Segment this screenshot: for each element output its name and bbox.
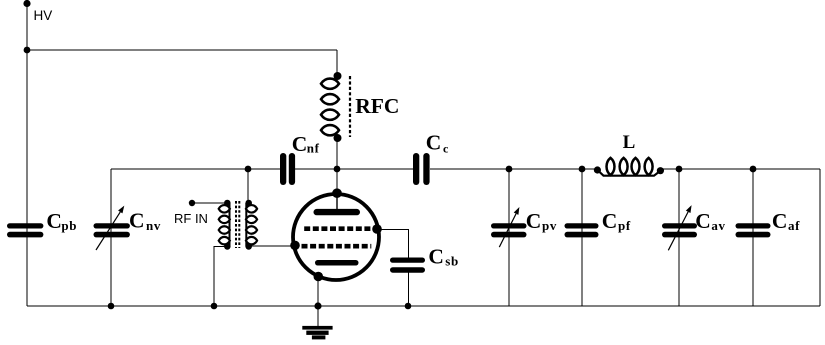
svg-text:C: C: [129, 209, 145, 233]
svg-text:C: C: [602, 209, 618, 233]
label Cnf: [292, 132, 320, 156]
wire RFC bottom to tube plate cap: [336, 138, 338, 193]
label Cc: [426, 131, 449, 156]
svg-text:sb: sb: [445, 253, 459, 268]
label Cpv: [526, 209, 557, 233]
junction Caf / output bus: [750, 166, 757, 173]
junction signal bus / tube plate riser: [334, 166, 341, 173]
svg-text:C: C: [426, 131, 442, 155]
wire primary to ground: [214, 246, 227, 306]
wire ground bus (bottom): [27, 305, 820, 307]
svg-text:RFC: RFC: [355, 94, 399, 118]
svg-text:pf: pf: [618, 218, 631, 233]
label HV: [34, 8, 53, 23]
svg-text:C: C: [46, 209, 62, 233]
wire RFC top drop: [336, 50, 338, 76]
label Cnv: [129, 209, 161, 233]
junction transformer primary / ground bus: [211, 303, 218, 310]
wire HV vertical rail: [26, 3, 28, 306]
wire secondary top riser: [247, 169, 249, 203]
tube plate (anode): [314, 193, 361, 215]
wire Caf branch: [752, 169, 754, 306]
ground symbol: [302, 326, 332, 340]
RFC top terminal dot: [334, 72, 342, 80]
wire signal bus right segment: [430, 168, 597, 170]
svg-text:nv: nv: [146, 218, 161, 233]
svg-text:C: C: [772, 209, 788, 233]
svg-text:C: C: [695, 209, 711, 233]
tube pin dots: [290, 188, 382, 281]
vacuum tube V1 envelope: [293, 194, 379, 280]
wire output bus after L: [660, 168, 820, 170]
capacitor Csb (plates): [390, 258, 425, 273]
svg-text:C: C: [292, 132, 308, 156]
Cav arrow: [668, 205, 691, 250]
capacitor Cnv variable (plates): [94, 223, 130, 237]
svg-text:pv: pv: [542, 218, 557, 233]
wire screen grid to Csb: [378, 230, 409, 259]
capacitor Cpf (plates): [565, 223, 599, 237]
junction Csb / ground bus: [405, 303, 412, 310]
L right terminal dot: [657, 167, 664, 174]
wire secondary to control grid: [249, 245, 295, 247]
L left terminal dot: [594, 166, 601, 173]
wire cathode to bus: [317, 277, 319, 307]
wire RF IN lead: [192, 202, 227, 204]
capacitor Cnf (plates): [280, 153, 295, 185]
junction Cpf / signal bus: [579, 166, 586, 173]
tube screen grid (dashed): [304, 226, 370, 231]
svg-text:c: c: [443, 141, 449, 155]
tube cathode bar: [315, 260, 359, 266]
label Caf: [772, 209, 800, 233]
capacitor Cav variable (plates): [662, 223, 697, 237]
wire right edge vertical: [819, 169, 821, 306]
capacitor Cpv variable (plates): [491, 223, 527, 237]
wire Csb bottom to bus: [408, 272, 410, 306]
capacitor Cc (plates): [413, 153, 430, 185]
junction HV rail / top bus: [24, 47, 31, 54]
capacitor Cpb (plates): [7, 223, 43, 237]
svg-text:nf: nf: [307, 141, 320, 156]
svg-text:C: C: [526, 209, 542, 233]
RFC core dashed line: [349, 76, 351, 137]
junction Cav / output bus: [676, 166, 683, 173]
svg-text:HV: HV: [34, 8, 53, 23]
transformer T1 secondary coil: [246, 203, 257, 246]
junction signal bus / transformer secondary: [245, 166, 252, 173]
junction Cpv / signal bus: [506, 166, 513, 173]
junction Cnv / ground bus: [108, 303, 115, 310]
label L: [623, 132, 636, 153]
node HV terminal: [23, 0, 30, 7]
wire signal bus middle segment: [295, 168, 413, 170]
wire Cpf branch: [581, 169, 583, 306]
capacitor Caf (plates): [736, 223, 771, 237]
transformer terminal dots: [224, 200, 252, 250]
wire top HV-to-RFC horizontal: [27, 49, 337, 51]
Cnv arrow: [96, 206, 124, 250]
label Cpf: [602, 209, 631, 233]
inductor RFC: [321, 79, 339, 136]
label RF IN: [174, 211, 208, 226]
svg-text:L: L: [623, 132, 636, 153]
label Cav: [695, 209, 725, 233]
wire Cav branch: [678, 169, 680, 306]
wire Cnv branch: [110, 169, 112, 306]
label Csb: [428, 244, 458, 268]
label Cpb: [46, 209, 77, 233]
wire Cpv branch: [508, 169, 510, 306]
svg-text:RF IN: RF IN: [174, 211, 208, 226]
svg-text:C: C: [428, 244, 444, 268]
transformer core dashed lines: [236, 201, 239, 248]
label RFC: [355, 94, 399, 118]
wire signal bus left segment: [111, 168, 280, 170]
wire ground stub: [317, 306, 319, 326]
RFC bottom terminal dot: [334, 134, 342, 142]
tube control grid (dashed): [302, 244, 372, 249]
RF IN terminal dot: [189, 200, 195, 206]
svg-text:pb: pb: [61, 218, 77, 233]
svg-text:af: af: [788, 218, 800, 233]
transformer T1 primary coil: [219, 203, 230, 246]
svg-text:av: av: [711, 218, 725, 233]
inductor L: [597, 158, 660, 176]
Cpv arrow: [499, 207, 519, 247]
junction cathode / ground bus: [314, 302, 321, 309]
